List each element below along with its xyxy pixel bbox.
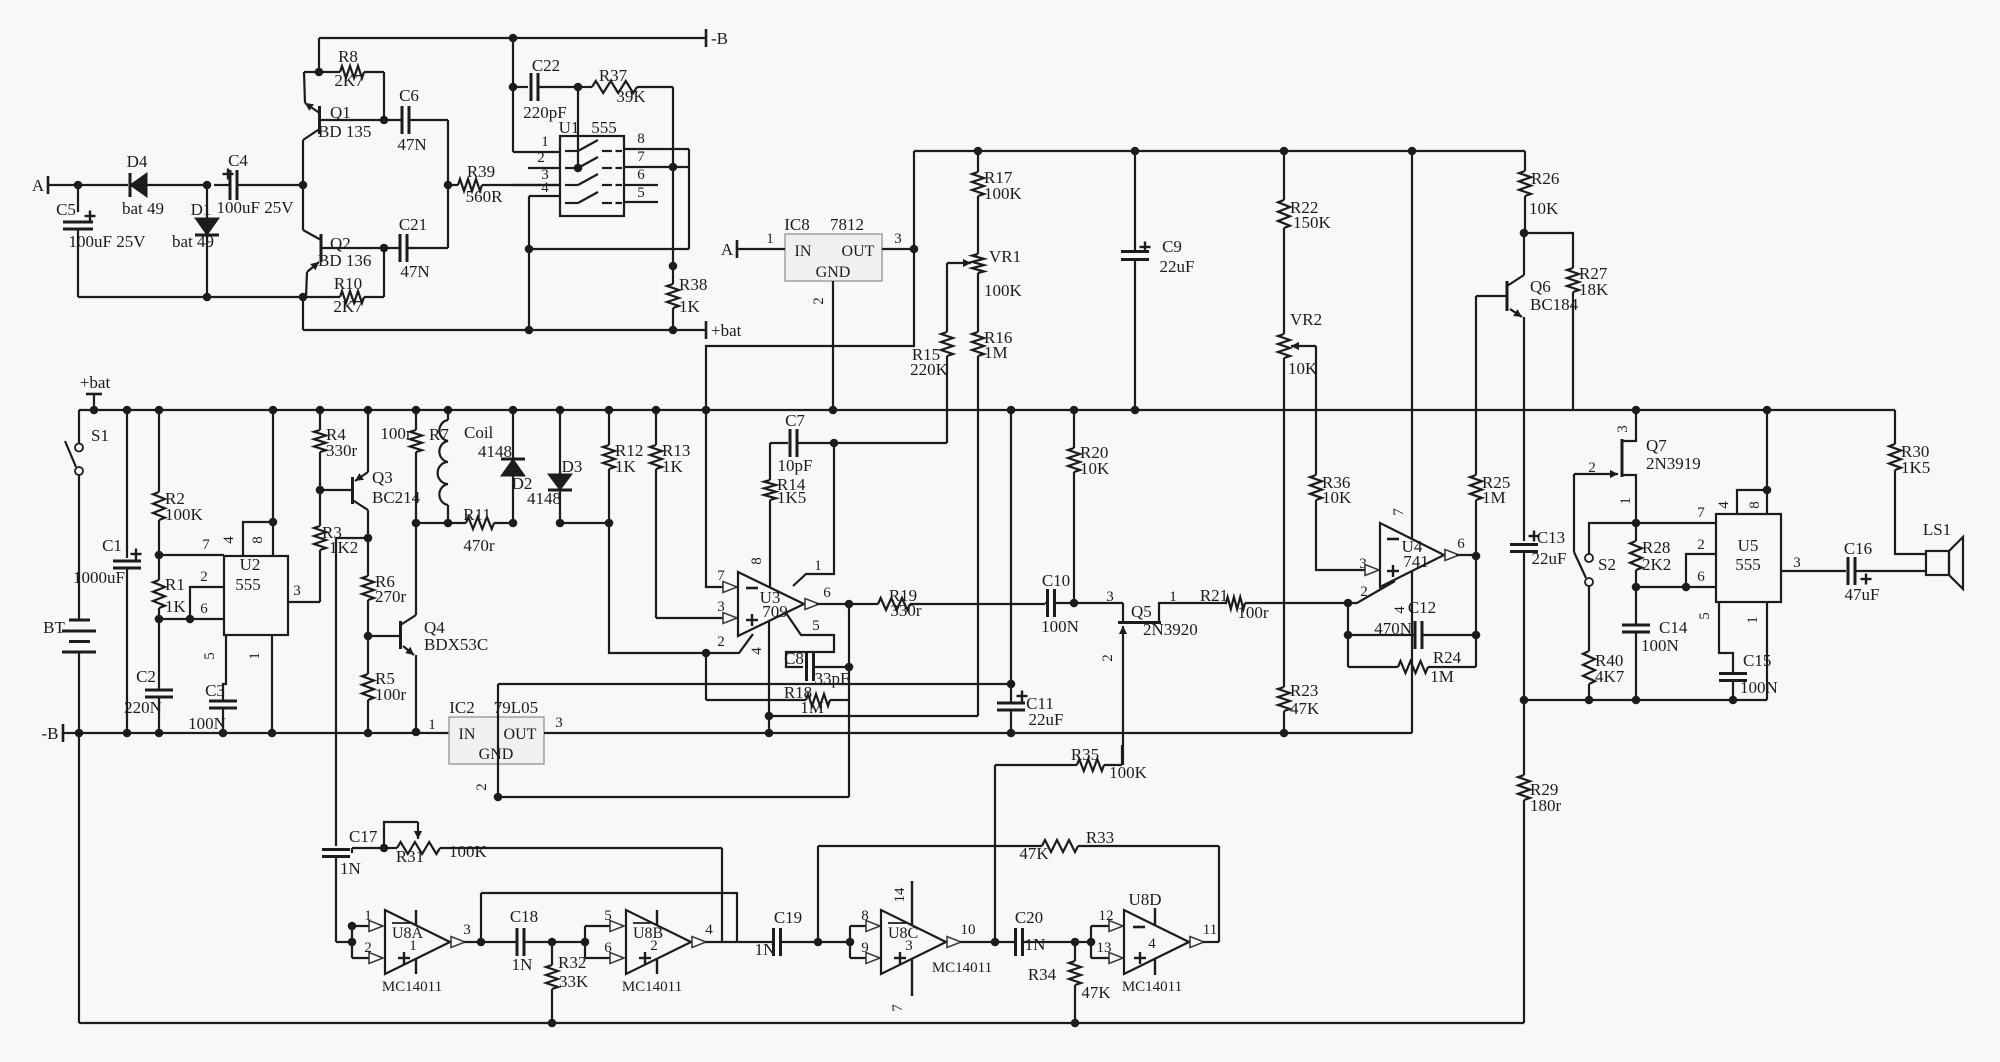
node R28 top / row523: [1632, 519, 1641, 528]
svg-text:1: 1: [541, 134, 549, 150]
svg-text:100K: 100K: [984, 281, 1023, 300]
svg-text:2: 2: [200, 569, 208, 585]
svg-text:C2: C2: [136, 667, 156, 686]
svg-text:741: 741: [1403, 552, 1429, 571]
main +bat rail (y=410): [79, 409, 1895, 411]
svg-text:C21: C21: [399, 215, 427, 234]
row from C5/D1 to R10: [78, 296, 303, 298]
U2 pin6 row: [159, 618, 224, 620]
U3 pin 8 / resistor R14 1K5: [769, 443, 771, 480]
svg-text:BD 136: BD 136: [318, 251, 371, 270]
op-amp U3 709: [738, 572, 804, 636]
node C12 right: [1472, 631, 1481, 640]
svg-text:100N: 100N: [1740, 678, 1778, 697]
resistor R18 1M: [705, 653, 707, 700]
transistor Q1 BD135: [318, 106, 321, 134]
resistor R8 2K7: [319, 71, 340, 73]
node GND on main rail: [829, 406, 838, 415]
U3 pin 5 wire: [786, 613, 834, 667]
svg-text:100N: 100N: [188, 714, 226, 733]
row 684 from GND column to C11: [498, 683, 1011, 685]
row 716 (U3 pin4 to R16 column): [769, 715, 978, 717]
svg-text:6: 6: [637, 167, 645, 183]
svg-text:47K: 47K: [1290, 699, 1320, 718]
U1 pin 5: [624, 201, 658, 203]
node U8A out / riser to row 893: [477, 938, 486, 947]
svg-text:C22: C22: [532, 56, 560, 75]
resistor R24 1M: [1348, 666, 1398, 668]
U5 pin 3 output: [1781, 570, 1846, 572]
wire C7 node to R15 column: [834, 442, 947, 444]
svg-text:7: 7: [637, 149, 645, 165]
svg-text:560R: 560R: [466, 187, 504, 206]
svg-text:1K2: 1K2: [329, 538, 358, 557]
svg-text:C14: C14: [1659, 618, 1688, 637]
node C22/R37: [574, 83, 583, 92]
node C20 right / R34: [1071, 938, 1080, 947]
svg-text:47uF: 47uF: [1845, 585, 1880, 604]
svg-text:C19: C19: [774, 908, 802, 927]
svg-text:U8D: U8D: [1128, 890, 1161, 909]
svg-text:7: 7: [890, 1004, 906, 1012]
resistor R36 10K: [1310, 475, 1322, 500]
svg-text:GND: GND: [479, 746, 514, 763]
svg-text:2K7: 2K7: [333, 297, 363, 316]
svg-text:4: 4: [1716, 501, 1732, 509]
resistor R5 100r: [367, 636, 369, 674]
capacitor C19 1N: [737, 941, 773, 943]
gate U8C MC14011: [881, 910, 946, 974]
svg-text:VR2: VR2: [1290, 310, 1322, 329]
wire A to C5 node: [48, 184, 78, 186]
node R39 left: [444, 181, 453, 190]
svg-text:2: 2: [537, 150, 545, 166]
wire C6 column down to C21 row: [447, 185, 449, 248]
svg-text:1N: 1N: [512, 955, 533, 974]
resistor R13 1K: [652, 406, 661, 415]
svg-text:BC214: BC214: [372, 488, 421, 507]
svg-text:555: 555: [1735, 555, 1761, 574]
svg-text:10pF: 10pF: [778, 456, 813, 475]
resistor R3 1K2: [319, 490, 321, 526]
svg-text:1K5: 1K5: [1901, 458, 1930, 477]
svg-text:3: 3: [1793, 555, 1801, 571]
U8D output wire: [1203, 941, 1219, 943]
row 797 to C8/R18 column: [498, 796, 849, 798]
node C18 right / R32: [548, 938, 557, 947]
svg-text:C17: C17: [349, 827, 378, 846]
switch S2: [1574, 552, 1586, 578]
node IC8 OUT: [910, 245, 919, 254]
svg-text:4148: 4148: [478, 442, 512, 461]
U1 pin 1: [513, 151, 560, 153]
resistor R37 39K: [578, 86, 592, 88]
svg-text:R34: R34: [1028, 965, 1057, 984]
wire OUT down and left to main rail: [706, 249, 914, 410]
U5 pins 4 and 8: [1737, 490, 1767, 514]
node Q4 base: [364, 632, 373, 641]
svg-text:IC2: IC2: [449, 698, 475, 717]
node C13 bottom / row700: [1520, 696, 1529, 705]
capacitor C21 47N: [399, 234, 402, 262]
capacitor C1 1000uF: [126, 410, 128, 558]
svg-text:BDX53C: BDX53C: [424, 635, 488, 654]
svg-text:8: 8: [250, 536, 266, 544]
svg-text:OUT: OUT: [842, 243, 875, 260]
node C11 top / row684: [1007, 680, 1016, 689]
node R10 column top: [380, 244, 389, 253]
U2 pins 4 and 8 to rail: [243, 522, 273, 556]
svg-text:6: 6: [200, 601, 208, 617]
node pin2 riser: [186, 615, 195, 624]
resistor R15 220K: [941, 332, 953, 356]
svg-text:S1: S1: [91, 426, 109, 445]
svg-text:100uF 25V: 100uF 25V: [69, 232, 147, 251]
U4 pin 7 column from +12V rail: [1408, 147, 1417, 156]
svg-text:1K: 1K: [662, 457, 684, 476]
svg-text:5: 5: [637, 185, 645, 201]
svg-text:1K: 1K: [679, 297, 701, 316]
svg-text:1M: 1M: [1430, 667, 1454, 686]
node +bat stem: [90, 406, 99, 415]
resistor R29 180r: [1523, 700, 1525, 775]
node Q3 collector / R6: [364, 534, 373, 543]
U2 pin 3 wire to R3: [288, 601, 320, 603]
svg-text:4148: 4148: [527, 489, 561, 508]
potentiometer VR2 10K: [1278, 334, 1290, 358]
battery BT: [78, 474, 80, 620]
node at C5 top: [74, 181, 83, 190]
svg-text:GND: GND: [816, 264, 851, 281]
svg-text:4K7: 4K7: [1595, 667, 1625, 686]
svg-text:10: 10: [961, 922, 976, 938]
wire emitter Q1 to R8 left node: [304, 71, 319, 73]
node pin2/C17: [348, 938, 357, 947]
svg-text:Q3: Q3: [372, 468, 393, 487]
svg-text:R35: R35: [1071, 745, 1099, 764]
node GND / row 797: [494, 793, 503, 802]
C11 column from rail: [1007, 406, 1016, 415]
svg-text:555: 555: [235, 575, 261, 594]
node coil bottom: [444, 519, 453, 528]
svg-text:R31: R31: [396, 847, 424, 866]
potentiometer R31 100K: [397, 842, 440, 854]
svg-text:33K: 33K: [559, 972, 589, 991]
svg-text:R38: R38: [679, 275, 707, 294]
R11 row right to R12 column: [560, 522, 609, 524]
svg-text:U5: U5: [1738, 536, 1759, 555]
U2 pin 5 / capacitor C3 100N: [223, 635, 226, 701]
node C6 row: [380, 116, 389, 125]
resistor R6 270r: [367, 538, 369, 576]
node R28 bottom / pin6 row: [1632, 583, 1641, 592]
node R2/R1 pin7: [155, 551, 164, 560]
transistor Q2 BD136: [320, 234, 323, 262]
node R31 left: [380, 844, 389, 853]
svg-text:7812: 7812: [830, 215, 864, 234]
svg-text:C18: C18: [510, 907, 538, 926]
svg-text:100uF 25V: 100uF 25V: [217, 198, 295, 217]
U4 pin 2 wire: [1348, 581, 1395, 603]
svg-text:IN: IN: [795, 243, 812, 260]
+12V rail (y=151): [914, 150, 1525, 152]
svg-text:1: 1: [814, 558, 822, 574]
svg-text:3: 3: [1106, 589, 1114, 605]
node pin2 / C12 / R24 riser: [1344, 599, 1353, 608]
gate U8B MC14011: [626, 910, 691, 974]
svg-text:2: 2: [717, 634, 725, 650]
svg-text:4: 4: [749, 647, 765, 655]
transistor Q7 2N3919 (FET): [1632, 406, 1641, 415]
IC8 pin 1: [737, 248, 785, 250]
IC2 79L05 regulator box: [449, 717, 544, 764]
wire Q2 collector to input node: [302, 185, 304, 230]
node at Q1/Q2 base column: [299, 181, 308, 190]
svg-text:1N: 1N: [340, 859, 361, 878]
capacitor C20 1N: [1014, 928, 1017, 956]
bottom rail: [79, 1022, 1524, 1024]
capacitor C18 1N: [516, 928, 519, 956]
transistor Q3 BC214: [320, 489, 353, 491]
svg-text:8: 8: [637, 131, 645, 147]
svg-text:A: A: [721, 240, 734, 259]
resistor R38 1K: [672, 167, 674, 266]
wire R7 column to Q4 collector: [415, 523, 417, 615]
wire R12 node down to U3 pin2 row: [609, 523, 706, 653]
node U8C out / R35 riser / C20: [991, 938, 1000, 947]
R35 left column down to U8C output: [994, 765, 996, 942]
svg-text:100r: 100r: [1237, 603, 1269, 622]
U8A pin1 wire: [352, 925, 376, 927]
svg-text:2K2: 2K2: [1642, 555, 1671, 574]
transistor Q4 BDX53C: [368, 635, 401, 637]
wire R37 right down to pin 7: [672, 87, 674, 167]
resistor R10 2K7: [303, 296, 340, 298]
capacitor C12 470N: [1348, 634, 1414, 636]
svg-text:47N: 47N: [397, 135, 426, 154]
U8C output wire: [960, 941, 995, 943]
IC2 pin 3 row (right -B section): [544, 732, 1412, 734]
svg-text:1K5: 1K5: [777, 488, 806, 507]
resistor R23 47K: [1278, 687, 1290, 711]
node C10/R20: [1070, 599, 1079, 608]
wire S2 top to pin7 row: [1589, 523, 1636, 554]
node +12V rail / R17: [974, 147, 983, 156]
wire to -B rail: [318, 38, 320, 72]
svg-text:bat 49: bat 49: [172, 232, 214, 251]
capacitor C13 22uF: [1510, 543, 1538, 546]
resistor R12 1K: [605, 406, 614, 415]
U3 pin 2 wire: [706, 634, 753, 653]
capacitor C6 47N: [384, 119, 402, 121]
svg-text:1N: 1N: [1025, 935, 1046, 954]
svg-text:IN: IN: [459, 726, 476, 743]
node pin2 / R18: [702, 649, 711, 658]
svg-text:MC14011: MC14011: [622, 979, 682, 995]
Q7 gate wire down to S2: [1573, 474, 1575, 552]
capacitor C16 47uF: [1847, 557, 1850, 585]
diode D3 4148: [556, 406, 565, 415]
node pin6 / R25: [1472, 552, 1481, 561]
node R1 bottom / pin6 row: [155, 615, 164, 624]
svg-text:U8A: U8A: [392, 925, 424, 942]
wire R24 right up to pin6 node: [1475, 556, 1477, 667]
svg-text:4: 4: [541, 180, 549, 196]
U4 output pin 6: [1456, 554, 1476, 556]
resistor R25 1M: [1475, 296, 1477, 475]
U5 pin 2 wire: [1686, 554, 1716, 587]
svg-text:OUT: OUT: [504, 726, 537, 743]
svg-text:R24: R24: [1433, 648, 1462, 667]
wire R10 node to +bat rail: [302, 297, 304, 330]
svg-text:2: 2: [474, 783, 490, 791]
capacitor C11 22uF: [1010, 684, 1012, 703]
VR1 wiper arrow: [947, 262, 971, 264]
resistor R27 18K: [1524, 233, 1573, 268]
svg-text:1K: 1K: [615, 457, 637, 476]
svg-text:11: 11: [1203, 922, 1217, 938]
svg-text:100K: 100K: [1109, 763, 1148, 782]
svg-text:3: 3: [463, 922, 471, 938]
capacitor C8 33pF: [805, 653, 808, 681]
svg-text:10K: 10K: [1080, 459, 1110, 478]
resistor R11 470r: [448, 522, 466, 524]
Q1 base row / C6 row: [320, 119, 385, 121]
U8B input bracket: [581, 938, 590, 947]
capacitor C4: [229, 170, 232, 200]
svg-text:C8: C8: [784, 649, 804, 668]
IC U2 555 box: [224, 556, 288, 635]
U1 pin 2: [528, 167, 560, 169]
svg-text:100N: 100N: [1641, 636, 1679, 655]
svg-text:6: 6: [1457, 536, 1465, 552]
svg-text:4: 4: [221, 536, 237, 544]
svg-text:100r: 100r: [380, 424, 412, 443]
svg-text:C10: C10: [1042, 571, 1070, 590]
svg-text:C3: C3: [205, 681, 225, 700]
svg-text:A: A: [32, 176, 45, 195]
node D1 bottom row: [203, 293, 212, 302]
svg-text:2: 2: [1697, 537, 1705, 553]
IC8 pin 2 GND: [832, 281, 834, 410]
svg-text:7: 7: [1391, 508, 1407, 516]
svg-text:4: 4: [1392, 606, 1408, 614]
wire S2 bottom to R40: [1588, 585, 1590, 651]
svg-text:IC8: IC8: [784, 215, 810, 234]
column R16 continues below rail to row 716: [977, 410, 979, 716]
capacitor C22 220pF: [512, 38, 514, 152]
wire R10 right up to base row: [383, 248, 385, 297]
svg-text:+bat: +bat: [711, 321, 742, 340]
svg-text:18K: 18K: [1579, 280, 1609, 299]
Q6 emitter down to C13: [1523, 317, 1525, 541]
svg-text:180r: 180r: [1530, 796, 1562, 815]
svg-text:1M: 1M: [800, 698, 824, 717]
svg-text:C16: C16: [1844, 539, 1872, 558]
IC U5 555 box: [1716, 514, 1781, 602]
svg-text:1K: 1K: [165, 597, 187, 616]
svg-text:10K: 10K: [1529, 199, 1559, 218]
svg-text:2: 2: [1360, 584, 1368, 600]
svg-text:U2: U2: [240, 555, 261, 574]
svg-text:3: 3: [905, 938, 913, 954]
svg-text:R1: R1: [165, 575, 185, 594]
U1 internal switches: [565, 150, 578, 152]
svg-text:2N3919: 2N3919: [1646, 454, 1701, 473]
node R10 left: [299, 293, 308, 302]
U2 pin 2 wire: [190, 587, 224, 619]
U1 pin 3: [512, 184, 560, 186]
svg-text:330r: 330r: [326, 441, 358, 460]
svg-text:3: 3: [1615, 425, 1631, 433]
node +12V rail / R22: [1280, 147, 1289, 156]
svg-text:100K: 100K: [449, 842, 488, 861]
svg-text:R11: R11: [463, 505, 491, 524]
capacitor C2 220N: [158, 619, 160, 690]
U3 pin 4 wire down to -B row: [768, 621, 770, 733]
loudspeaker LS1: [1926, 551, 1949, 575]
svg-text:D3: D3: [562, 457, 583, 476]
svg-text:2: 2: [1588, 460, 1596, 476]
svg-text:2K7: 2K7: [334, 71, 364, 90]
resistor R21 100r: [1226, 602, 1227, 604]
svg-text:Coil: Coil: [464, 423, 494, 442]
diode D1: [206, 185, 208, 218]
node R8 left: [315, 68, 324, 77]
resistor R22 150K: [1283, 151, 1285, 200]
R31 row right end down to U8B output: [721, 848, 723, 942]
U8A output wire: [464, 941, 517, 943]
svg-text:1: 1: [1745, 616, 1761, 624]
svg-text:470N: 470N: [1374, 619, 1412, 638]
U5 pin6 row: [1636, 586, 1716, 588]
U5 pin 7 row: [1636, 522, 1716, 524]
terminal -B (top): [705, 29, 708, 47]
U3 pin 3 wire: [656, 617, 738, 619]
wire OUT up to +12V rail: [913, 151, 915, 249]
svg-text:MC14011: MC14011: [382, 979, 442, 995]
R31 row from C17: [351, 848, 353, 853]
svg-text:1: 1: [409, 938, 417, 954]
resistor R40 4K7: [1583, 651, 1595, 684]
svg-text:R10: R10: [334, 274, 362, 293]
resistor R17 100K: [977, 151, 979, 172]
svg-text:C13: C13: [1537, 528, 1565, 547]
resistor R28 2K2: [1635, 523, 1637, 541]
svg-text:6: 6: [823, 585, 831, 601]
svg-text:2: 2: [650, 938, 658, 954]
svg-text:C4: C4: [228, 151, 248, 170]
svg-text:C12: C12: [1408, 598, 1436, 617]
wire collector node to C17 column: [336, 537, 368, 539]
U1 pin 6: [624, 184, 658, 186]
resistor R16 1M: [972, 332, 984, 356]
svg-text:R37: R37: [599, 66, 628, 85]
wire pins 4+8 loop: [528, 196, 530, 249]
svg-text:D1: D1: [191, 200, 212, 219]
gate U8D MC14011: [1124, 910, 1189, 974]
U1 pin 7: [624, 166, 689, 168]
svg-text:100K: 100K: [165, 505, 204, 524]
svg-text:14: 14: [892, 887, 908, 903]
svg-text:BT: BT: [43, 618, 65, 637]
svg-text:4: 4: [1148, 936, 1156, 952]
svg-text:47K: 47K: [1081, 983, 1111, 1002]
diode D2 4148: [509, 406, 518, 415]
svg-text:5: 5: [202, 652, 218, 660]
U1 pin 4: [529, 195, 560, 197]
transistor Q5 2N3920 (FET): [1122, 603, 1124, 622]
